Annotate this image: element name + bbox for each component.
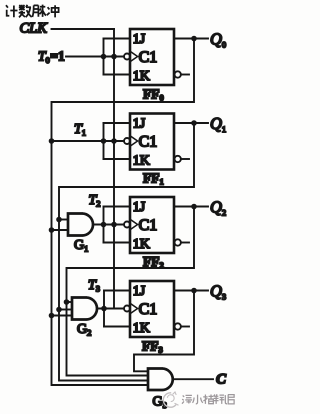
junction dot Q0 vertical at T1 bbox=[49, 138, 55, 144]
wire G2 input from Q1 bbox=[59, 309, 72, 311]
dynamic clock wedge FF2 bbox=[131, 220, 138, 229]
svg-text:1K: 1K bbox=[133, 69, 150, 84]
watermark text 涛小楠笔记 (light gray hand strokes) bbox=[182, 394, 234, 404]
clock bubble FF3 bbox=[124, 306, 130, 312]
flip-flop FF1 box bbox=[130, 114, 174, 170]
wire CLK horizontal from label to clock bus bbox=[52, 28, 115, 30]
wire G2 input from Q2 bbox=[67, 301, 73, 303]
svg-text:1J: 1J bbox=[133, 117, 146, 132]
junction dot T0/JK vertical FF0 bbox=[101, 54, 107, 60]
clock bubble FF1 bbox=[124, 138, 130, 144]
wire FF1 1J stub bbox=[104, 122, 131, 124]
junction dot G2 input Q2 bbox=[64, 299, 70, 305]
svg-text:1K: 1K bbox=[133, 153, 150, 168]
wire carry output bbox=[173, 378, 213, 380]
clock bubble FF2 bbox=[124, 222, 130, 228]
svg-text:Q1: Q1 bbox=[210, 114, 226, 134]
wire FF2 1J stub bbox=[104, 206, 131, 208]
svg-text:C1: C1 bbox=[139, 134, 158, 151]
wire FF1 Qbar stub bbox=[181, 158, 189, 160]
junction dot Q2 feedback bbox=[191, 204, 197, 210]
complement output bubble FF2 bbox=[175, 239, 181, 245]
svg-text:FF0: FF0 bbox=[143, 87, 164, 103]
wire Q0 feedback: down, left, down the left side to gates bbox=[52, 39, 195, 386]
wire FF0 Qbar stub bbox=[181, 74, 189, 76]
svg-text:1J: 1J bbox=[133, 32, 146, 47]
wire G1 input from Q1 bbox=[59, 219, 68, 221]
svg-text:1K: 1K bbox=[133, 237, 150, 252]
svg-text:T0=1: T0=1 bbox=[38, 49, 65, 66]
clock bubble FF0 bbox=[124, 54, 130, 60]
svg-text:C1: C1 bbox=[139, 217, 158, 234]
flip-flop FF3 box bbox=[130, 281, 174, 337]
svg-text:T1: T1 bbox=[74, 122, 86, 138]
wire FF1 1K stub bbox=[104, 158, 131, 160]
junction dot G1 input Q1 bbox=[56, 217, 62, 223]
svg-text:Q0: Q0 bbox=[210, 30, 226, 50]
svg-text:G1: G1 bbox=[74, 238, 88, 254]
svg-text:T3: T3 bbox=[88, 278, 100, 294]
flip-flop FF0 box bbox=[130, 29, 174, 85]
dynamic clock wedge FF1 bbox=[131, 136, 138, 145]
wire FF1 Q output bbox=[174, 122, 208, 124]
AND gate G1 bbox=[68, 214, 93, 236]
wire T0 line to FF0 clock row bbox=[66, 56, 124, 58]
wire FF0 1K stub bbox=[104, 74, 131, 76]
node T1: wire from Q0 vertical to FF1 clock row bbox=[52, 140, 125, 142]
wire Q2 feedback: down, left, down to gates bbox=[67, 207, 195, 376]
svg-text:Q3: Q3 bbox=[210, 282, 226, 302]
wire FF3 Qbar stub bbox=[181, 326, 189, 328]
flip-flop FF2 box bbox=[130, 197, 174, 253]
junction dot G2 input Q0 bbox=[49, 313, 55, 319]
svg-text:1K: 1K bbox=[133, 321, 150, 336]
junction dot T2/JK vertical FF2 bbox=[101, 222, 107, 228]
wire G1 input from Q0 bbox=[52, 229, 69, 231]
wire Q3 feedback: down, left, jog down to carry gate top input bbox=[134, 291, 194, 372]
wire FF3 J/K tie vertical bbox=[103, 291, 105, 327]
svg-text:C1: C1 bbox=[139, 49, 158, 66]
title 计数脉冲 (hand-drawn strokes) bbox=[6, 5, 59, 18]
junction dot CLK bus FF2 bbox=[111, 222, 117, 228]
wire FF1 J/K tie vertical bbox=[103, 123, 105, 159]
wire G2 input from Q0 bbox=[52, 315, 73, 317]
svg-text:FF3: FF3 bbox=[142, 339, 163, 355]
complement output bubble FF1 bbox=[175, 156, 181, 162]
AND gate G2 bbox=[72, 298, 97, 320]
junction dot Q1 feedback bbox=[191, 120, 197, 126]
junction dot G2 input Q1 bbox=[56, 307, 62, 313]
svg-text:Q2: Q2 bbox=[210, 198, 226, 218]
dynamic clock wedge FF0 bbox=[131, 52, 138, 61]
svg-text:G2: G2 bbox=[77, 322, 91, 338]
wire FF2 Q output bbox=[174, 206, 208, 208]
svg-text:C1: C1 bbox=[139, 301, 158, 318]
junction dot CLK bus FF1 bbox=[111, 138, 117, 144]
wire FF2 J/K tie vertical bbox=[103, 207, 105, 243]
wire G2 output T3 to FF3 clock row bbox=[97, 308, 124, 310]
svg-text:C: C bbox=[216, 372, 227, 388]
junction dot G1 input Q0 bbox=[49, 227, 55, 233]
complement output bubble FF3 bbox=[175, 323, 181, 329]
svg-text:1J: 1J bbox=[133, 284, 146, 299]
AND gate G3 (carry gate) bbox=[148, 369, 173, 391]
wire FF0 Q output bbox=[174, 38, 208, 40]
wire FF3 1K stub bbox=[104, 326, 130, 328]
wire FF3 1J stub bbox=[104, 290, 130, 292]
complement output bubble FF0 bbox=[175, 71, 181, 77]
junction dot CLK bus FF0 bbox=[111, 54, 117, 60]
wire FF0 J/K tie vertical bbox=[103, 39, 105, 75]
wire FF2 1K stub bbox=[104, 242, 131, 244]
wire G1 output T2 to FF2 clock row bbox=[93, 224, 124, 226]
junction dot Q0 feedback bbox=[191, 36, 197, 42]
svg-text:CLK: CLK bbox=[20, 21, 49, 37]
wire FF3 Q output bbox=[174, 290, 208, 292]
watermark icon (light gray) bbox=[163, 392, 178, 407]
wire FF2 Qbar stub bbox=[181, 242, 189, 244]
junction dot T1/JK vertical FF1 bbox=[101, 138, 107, 144]
wire FF0 1J stub bbox=[104, 38, 131, 40]
dynamic clock wedge FF3 bbox=[131, 304, 138, 313]
junction dot T3/JK vertical FF3 bbox=[101, 306, 107, 312]
svg-text:T2: T2 bbox=[89, 193, 101, 209]
svg-text:FF1: FF1 bbox=[143, 171, 164, 187]
wire Q1 feedback: down, left, down to gates bbox=[59, 123, 194, 381]
svg-text:1J: 1J bbox=[133, 200, 146, 215]
junction dot Q3 feedback bbox=[191, 288, 197, 294]
wire CLK vertical bus down to FF3 clock bbox=[113, 29, 115, 309]
